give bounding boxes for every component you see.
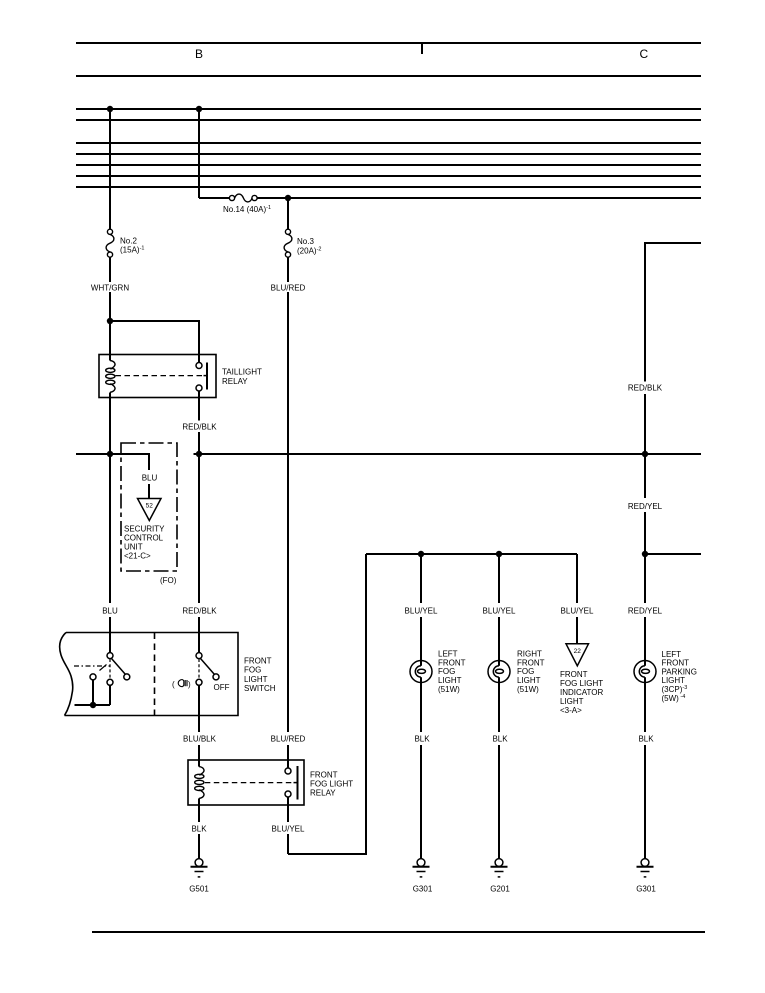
svg-text:LEFT: LEFT	[662, 650, 682, 659]
node bus454/x199	[196, 451, 202, 457]
svg-text:BLU/YEL: BLU/YEL	[405, 607, 438, 616]
svg-text:): )	[188, 680, 191, 689]
svg-text:G201: G201	[490, 885, 510, 894]
fuse No.3 (20A)	[284, 229, 292, 257]
switch left pivot dashed to contact	[109, 659, 111, 679]
svg-text:INDICATOR: INDICATOR	[560, 688, 603, 697]
svg-text:FOG: FOG	[438, 667, 455, 676]
svg-text:FRONT: FRONT	[244, 657, 272, 666]
wire x199 relay contact out through RED/BLK to bus	[198, 391, 200, 421]
bus y454 right segment	[194, 453, 702, 455]
svg-text:TAILLIGHT: TAILLIGHT	[222, 368, 262, 377]
svg-text:BLU/YEL: BLU/YEL	[272, 825, 305, 834]
svg-text:BLU/BLK: BLU/BLK	[183, 735, 217, 744]
taillight relay box	[99, 355, 216, 398]
wire BLU/YEL fog relay out, to riser x366	[287, 797, 289, 805]
wire fuse row right run to page edge	[257, 197, 701, 199]
svg-text:LIGHT: LIGHT	[438, 676, 462, 685]
header column tick	[421, 43, 423, 54]
svg-text:OFF: OFF	[214, 683, 230, 692]
svg-text:BLK: BLK	[191, 825, 207, 834]
switch left pivot circle	[107, 653, 113, 659]
node y321/x110	[107, 318, 113, 324]
svg-text:BLU: BLU	[142, 474, 158, 483]
ground G201	[491, 859, 508, 877]
bus line 3	[76, 142, 701, 144]
wire BLK fog relay to ground G501	[198, 805, 200, 822]
svg-text:52: 52	[146, 503, 154, 510]
svg-text:LIGHT: LIGHT	[517, 676, 541, 685]
wire vertical drop x199 from bus line1 to fuse row	[198, 109, 200, 198]
fog relay contacts	[285, 766, 298, 800]
node bus454/x110	[107, 451, 113, 457]
feed line y554 right stub	[645, 553, 701, 555]
bus line 5	[76, 164, 701, 166]
header top rule	[76, 42, 701, 44]
fog relay coil	[195, 767, 204, 799]
node switch y705/x93	[90, 702, 96, 708]
svg-text:G301: G301	[413, 885, 433, 894]
svg-text:RED/YEL: RED/YEL	[628, 607, 663, 616]
bus line 7	[76, 186, 701, 188]
front fog light switch box	[60, 633, 238, 716]
switch section divider	[154, 633, 156, 716]
wire branch y321 to taillight relay contact	[110, 321, 199, 363]
svg-text:G301: G301	[636, 885, 656, 894]
node bus1/x110	[107, 106, 113, 112]
svg-text:UNIT: UNIT	[124, 543, 143, 552]
svg-text:BLK: BLK	[414, 735, 430, 744]
node bus1/x199	[196, 106, 202, 112]
svg-text:<21-C>: <21-C>	[124, 552, 151, 561]
svg-text:FOG LIGHT: FOG LIGHT	[560, 679, 603, 688]
wire WHT/GRN fuse No.2 to junction	[109, 257, 111, 282]
svg-text:CONTROL: CONTROL	[124, 534, 164, 543]
switch right blade to OFF	[201, 659, 215, 675]
switch right ON contact circle	[196, 679, 202, 685]
svg-text:BLU/YEL: BLU/YEL	[483, 607, 516, 616]
wire RED/BLK x199 bus to switch pivot	[198, 454, 200, 603]
svg-text:LEFT: LEFT	[438, 650, 458, 659]
svg-text:BLK: BLK	[492, 735, 508, 744]
wire x110 junction into taillight relay coil	[109, 321, 111, 361]
svg-text:BLU/YEL: BLU/YEL	[561, 607, 594, 616]
svg-text:(FO): (FO)	[160, 576, 177, 585]
fuse No.2 (15A)	[106, 229, 114, 257]
switch right OFF contact circle	[213, 674, 219, 680]
svg-text:WHT/GRN: WHT/GRN	[91, 284, 129, 293]
header bottom rule	[76, 75, 701, 77]
svg-text:FRONT: FRONT	[310, 771, 338, 780]
wire top right corner x645	[645, 243, 701, 382]
svg-text:LIGHT: LIGHT	[662, 676, 686, 685]
fog relay coil wire stubs	[198, 760, 200, 805]
bus line 1	[76, 108, 701, 110]
feed line y554 left segment	[366, 553, 577, 555]
right front fog light bulb	[488, 661, 510, 683]
svg-text:(: (	[172, 680, 175, 689]
fog light switch icon	[178, 680, 187, 687]
svg-text:FOG: FOG	[244, 666, 261, 675]
svg-text:BLU/RED: BLU/RED	[271, 284, 306, 293]
svg-text:<3-A>: <3-A>	[560, 706, 582, 715]
svg-text:RED/BLK: RED/BLK	[182, 607, 217, 616]
bus line 6	[76, 175, 701, 177]
node y554/x645	[642, 551, 648, 557]
ground G301 left	[413, 859, 430, 877]
svg-text:SWITCH: SWITCH	[244, 684, 276, 693]
wire RED/BLK x645 to bus	[644, 394, 646, 454]
svg-text:(51W): (51W)	[438, 685, 460, 694]
svg-text:LIGHT: LIGHT	[244, 675, 268, 684]
ground G301 right	[637, 859, 654, 877]
wire BLK right fog light to ground	[498, 683, 500, 733]
left front fog light bulb	[410, 661, 432, 683]
svg-text:SECURITY: SECURITY	[124, 525, 165, 534]
node y554/x421	[418, 551, 424, 557]
switch left contact circle A	[90, 674, 96, 680]
bus line 2	[76, 119, 701, 121]
switch right pivot dashed to contact	[198, 659, 200, 679]
svg-text:C: C	[640, 47, 649, 61]
switch left linkage dash-dot	[74, 665, 110, 667]
svg-text:BLU: BLU	[102, 607, 118, 616]
security control unit pin triangle 52	[138, 499, 162, 521]
switch box outline	[65, 633, 239, 716]
svg-text:FOG LIGHT: FOG LIGHT	[310, 780, 353, 789]
svg-text:No.3: No.3	[297, 237, 314, 246]
svg-text:RIGHT: RIGHT	[517, 650, 542, 659]
switch left contact circle (blade end)	[124, 674, 130, 680]
wire fuse row left stub	[199, 197, 230, 199]
svg-text:RELAY: RELAY	[222, 377, 248, 386]
svg-text:No.2: No.2	[120, 236, 137, 245]
wire BLU/BLK switch to fog relay coil	[198, 685, 200, 732]
svg-text:(51W): (51W)	[517, 685, 539, 694]
svg-text:FRONT: FRONT	[517, 658, 545, 667]
front fog light indicator triangle 22	[566, 644, 589, 666]
fuse No.14 (40A)	[229, 194, 257, 202]
switch left blade	[112, 659, 126, 675]
bus y454 left segment	[76, 453, 150, 455]
switch box torn left edge	[60, 633, 73, 716]
svg-text:RED/YEL: RED/YEL	[628, 502, 663, 511]
bottom rule	[92, 931, 705, 933]
node bus454/x645	[642, 451, 648, 457]
security control unit dashed box	[121, 443, 177, 571]
taillight relay armature dashes	[116, 375, 204, 377]
fog relay armature dashes	[205, 782, 294, 784]
svg-text:RED/BLK: RED/BLK	[628, 384, 663, 393]
wire x110 coil out to bus	[109, 392, 111, 454]
svg-text:No.14 (40A)-1: No.14 (40A)-1	[223, 205, 271, 214]
svg-text:B: B	[195, 47, 203, 61]
svg-text:FRONT: FRONT	[438, 658, 466, 667]
ground G501	[191, 859, 208, 877]
taillight relay contacts	[196, 363, 207, 392]
left front parking light bulb	[634, 661, 656, 683]
wire RED/YEL x645 bus to y554	[644, 454, 646, 498]
svg-text:FOG: FOG	[517, 667, 534, 676]
svg-text:RELAY: RELAY	[310, 789, 336, 798]
wire BLU/YEL right fog light drop x499	[498, 554, 500, 603]
svg-text:LIGHT: LIGHT	[560, 697, 584, 706]
wire BLU/YEL indicator drop x577	[576, 554, 578, 603]
wire vertical drop x110 from bus line1 to fuse No.2	[109, 109, 111, 229]
wire BLU into security control unit	[148, 454, 151, 470]
svg-text:PARKING: PARKING	[662, 667, 697, 676]
wire BLU/YEL left fog light drop x421.5	[420, 554, 422, 603]
svg-text:22: 22	[574, 648, 582, 655]
svg-text:RED/BLK: RED/BLK	[182, 423, 217, 432]
bus line 4	[76, 153, 701, 155]
node y554/x499	[496, 551, 502, 557]
wire BLU/RED x288 fuse No.3 down to fog relay	[287, 198, 289, 229]
svg-text:FRONT: FRONT	[560, 670, 588, 679]
svg-text:FRONT: FRONT	[662, 659, 690, 668]
wire RED/YEL x645 to parking bulb	[644, 554, 646, 603]
wire BLK x645 bulb to ground	[644, 683, 646, 733]
switch left linkage diagonal	[100, 665, 107, 671]
switch right pivot circle	[196, 653, 202, 659]
wire BLU x110 bus to switch pivot	[109, 454, 111, 603]
svg-text:BLU/RED: BLU/RED	[271, 735, 306, 744]
front fog light relay box	[188, 760, 304, 805]
switch left contact wires to y705	[75, 680, 111, 705]
node fuse row/x288	[285, 195, 291, 201]
svg-text:G501: G501	[189, 885, 209, 894]
wire BLK left fog light to ground	[420, 683, 422, 733]
switch left contact circle B	[107, 679, 113, 685]
taillight relay coil	[106, 361, 115, 393]
svg-text:BLK: BLK	[638, 735, 654, 744]
